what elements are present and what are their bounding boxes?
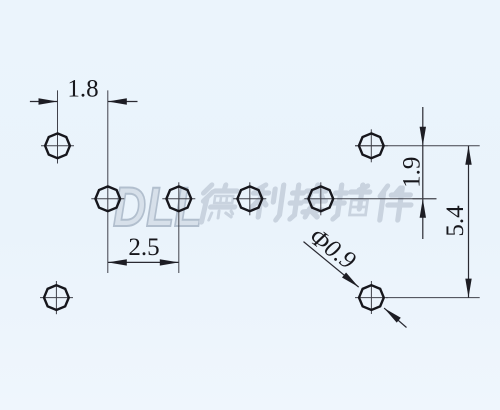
dim 1.9 lower arrow tail: [422, 199, 424, 239]
watermark chinese char 利: [250, 185, 284, 220]
dim 1.9 extension segment (y=198.8): [413, 198, 437, 200]
dim 1.8 left arrowhead: [39, 98, 58, 104]
dim 1.9 upper arrowhead (down): [420, 127, 426, 146]
dia 0.9 upper arrowhead: [342, 273, 361, 290]
pad P5 crosshair: [233, 182, 266, 215]
dim 5.4 top arrowhead (up): [465, 146, 471, 165]
pad P7 (bottom left): [44, 285, 69, 310]
dim 1.9 dimension line: [422, 146, 424, 199]
pad P6 crosshair: [304, 182, 436, 215]
watermark chinese char 件: [377, 186, 414, 220]
dim 1.8 extension line right (through pad P3 down to dim 2.5): [107, 90, 109, 273]
dim 1.8 dimension line left tail: [30, 101, 58, 103]
dim 1.8 extension line left (through pad P1): [57, 90, 59, 163]
pad P8 (bottom right): [359, 285, 384, 310]
dim 1.9 lower arrowhead (up): [420, 199, 426, 218]
pad P7 crosshair: [40, 281, 73, 314]
dim 1.9 upper arrow tail: [422, 107, 424, 146]
pad P5 (middle 3): [237, 186, 262, 211]
pad P6 (middle 4): [308, 186, 333, 211]
svg-text:1.9: 1.9: [399, 157, 426, 188]
dim 2.5 right arrowhead: [160, 259, 179, 265]
dia 0.9 lower tail: [384, 308, 406, 327]
watermark chinese char 接: [288, 185, 328, 219]
dim 2.5 left arrowhead: [108, 259, 127, 265]
pad P1 (top left): [45, 133, 70, 158]
watermark chinese char 德: [200, 185, 238, 222]
watermark chinese char 插: [331, 185, 371, 219]
dim 5.4 dimension line: [468, 146, 470, 298]
pad P2 (top right): [359, 133, 384, 158]
dim 1.8 right arrowhead: [108, 98, 127, 104]
pad P3 crosshair: [91, 198, 124, 200]
pad P4 (middle 2): [166, 186, 191, 211]
dim 5.4 bottom arrowhead (down): [465, 279, 471, 298]
pad P3 (middle 1): [95, 186, 120, 211]
pad P1 crosshair: [41, 145, 74, 147]
pad P4 crosshair: [162, 182, 195, 273]
watermark logo DLL: [113, 176, 202, 238]
dim 2.5 dimension line: [108, 261, 179, 263]
pad row reference line bottom right (y=297.6): [386, 297, 480, 299]
pad P2 crosshair: [355, 129, 388, 162]
svg-text:1.8: 1.8: [67, 76, 98, 103]
dia 0.9 leader upper line: [304, 242, 359, 288]
svg-text:2.5: 2.5: [128, 234, 159, 261]
pad P8 crosshair: [355, 281, 388, 314]
dim 1.8 dimension line right tail: [108, 101, 138, 103]
dia 0.9 lower arrowhead: [382, 306, 401, 323]
pad row reference line top right (y=146): [355, 145, 480, 147]
svg-text:5.4: 5.4: [442, 205, 469, 237]
